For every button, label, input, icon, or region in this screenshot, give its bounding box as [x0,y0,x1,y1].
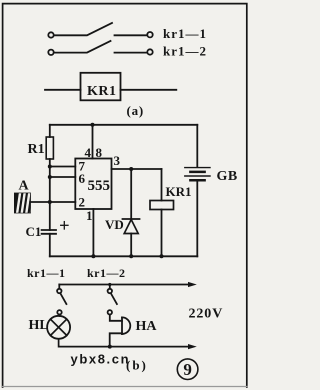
svg-text:GB: GB [217,169,238,184]
svg-text:2: 2 [79,195,86,210]
svg-text:KR1: KR1 [87,84,117,99]
svg-text:1: 1 [86,208,93,223]
svg-text:3: 3 [114,153,121,168]
svg-text:HL: HL [29,318,49,333]
svg-text:ybx8.cn: ybx8.cn [71,352,131,367]
svg-text:kr1—1: kr1—1 [27,266,66,280]
svg-text:kr1—2: kr1—2 [87,266,126,280]
svg-text:kr1—2: kr1—2 [163,44,207,59]
svg-text:220V: 220V [189,307,224,322]
svg-text:9: 9 [183,360,192,379]
svg-text:VD: VD [105,217,124,232]
svg-text:HA: HA [136,319,158,334]
svg-text:(a): (a) [127,103,145,118]
svg-text:A: A [19,178,30,193]
svg-text:R1: R1 [28,142,45,157]
svg-text:6: 6 [79,171,86,186]
svg-text:555: 555 [88,178,111,194]
svg-text:4: 4 [85,145,92,160]
svg-text:8: 8 [96,145,103,160]
svg-text:kr1—1: kr1—1 [163,26,207,41]
svg-text:C1: C1 [26,224,42,239]
svg-text:KR1: KR1 [166,184,192,199]
